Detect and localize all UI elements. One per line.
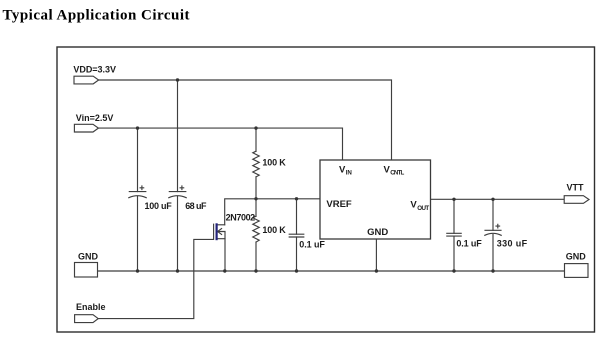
svg-text:Enable: Enable bbox=[76, 302, 106, 312]
svg-text:330 uF: 330 uF bbox=[497, 239, 528, 249]
svg-text:VDD=3.3V: VDD=3.3V bbox=[73, 64, 116, 74]
svg-text:GND: GND bbox=[367, 227, 388, 238]
svg-text:2N7002: 2N7002 bbox=[226, 213, 256, 223]
svg-text:GND: GND bbox=[566, 251, 587, 261]
svg-text:Typical Application Circuit: Typical Application Circuit bbox=[3, 8, 190, 24]
svg-text:CNTL: CNTL bbox=[390, 170, 404, 177]
svg-text:GND: GND bbox=[78, 252, 99, 262]
svg-text:Vin=2.5V: Vin=2.5V bbox=[76, 113, 114, 123]
svg-text:100 uF: 100 uF bbox=[145, 201, 173, 211]
svg-text:0.1 uF: 0.1 uF bbox=[299, 240, 325, 250]
svg-text:VREF: VREF bbox=[326, 199, 352, 210]
svg-text:OUT: OUT bbox=[417, 205, 429, 212]
svg-text:68 uF: 68 uF bbox=[185, 201, 207, 211]
svg-text:IN: IN bbox=[346, 170, 353, 177]
svg-text:100 K: 100 K bbox=[262, 158, 286, 168]
svg-text:0.1 uF: 0.1 uF bbox=[456, 239, 482, 249]
svg-text:VTT: VTT bbox=[567, 183, 585, 193]
svg-text:100 K: 100 K bbox=[262, 225, 286, 235]
